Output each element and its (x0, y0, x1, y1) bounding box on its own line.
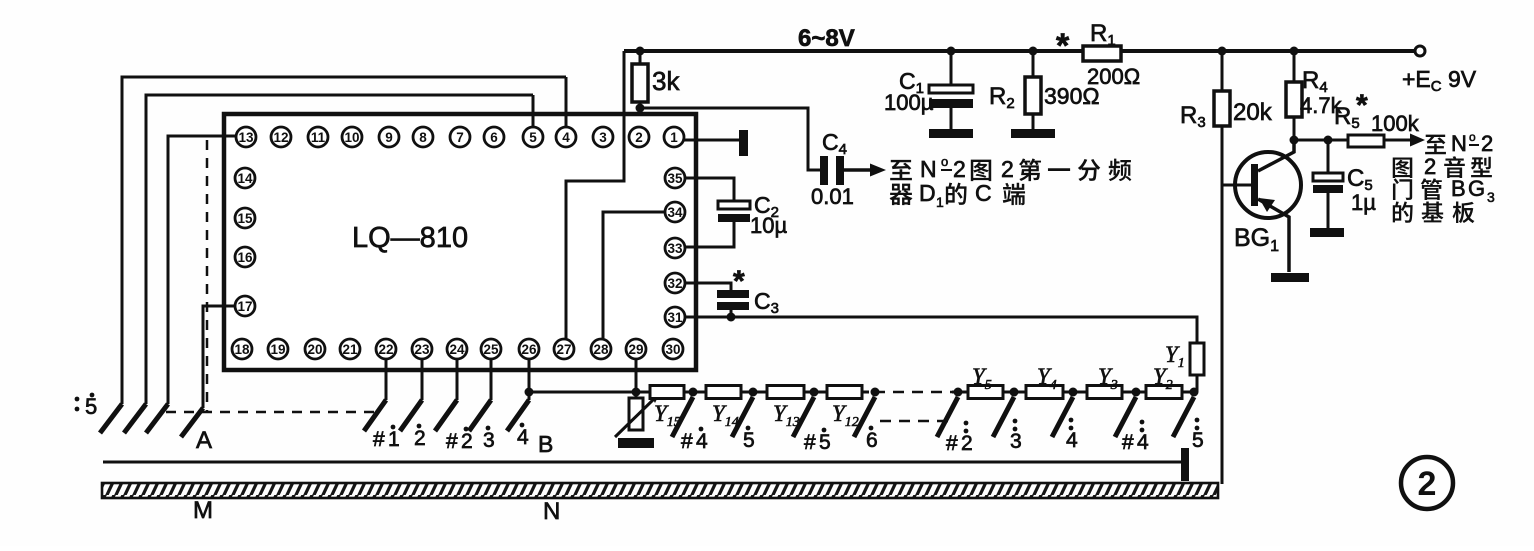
pin 32 (665, 273, 685, 293)
wire C5 bottom lead (1327, 193, 1330, 228)
node rail/3k (636, 47, 645, 56)
resistor R2 (1025, 77, 1041, 114)
wire pin35 to C2 (685, 178, 734, 201)
pin 25 (481, 339, 501, 359)
wire pin1 to tap (684, 139, 739, 142)
note #4 (681, 427, 708, 453)
pin 7 (450, 127, 470, 147)
pin 27 (554, 339, 574, 359)
svg-text:15: 15 (237, 211, 253, 226)
svg-text:#: # (373, 428, 385, 451)
pin 23 (412, 339, 432, 359)
terminal +Ec (1415, 46, 1425, 56)
node rail/R2 (1029, 47, 1038, 56)
node chain junction (1190, 388, 1199, 397)
capacitor C1 bottom plate (929, 99, 973, 108)
pin 6 (484, 127, 504, 147)
resistor R4 (1286, 82, 1302, 117)
pin 5 (523, 127, 543, 147)
svg-text:3: 3 (1010, 430, 1022, 453)
note #4 high (1122, 420, 1149, 454)
pin 1 (664, 127, 684, 147)
svg-text:2: 2 (1481, 131, 1493, 156)
svg-text:1µ: 1µ (1351, 190, 1376, 215)
wire collector lead (1258, 141, 1294, 171)
wire pin4 up (565, 77, 568, 127)
label ellipsis 5 high (75, 397, 80, 402)
svg-text:D: D (919, 180, 936, 206)
svg-text:*: * (733, 265, 745, 298)
pin 34 (665, 202, 685, 222)
wire pin23 down (421, 359, 424, 400)
resistor Y12 (827, 386, 862, 399)
wire pin32 to C3 (685, 283, 731, 290)
node pin29/chain (632, 388, 641, 397)
switch key chain (1173, 397, 1194, 437)
node rail/R4 (1290, 47, 1299, 56)
switch key pin24 (435, 400, 457, 431)
svg-text:5: 5 (743, 429, 755, 452)
svg-text:18: 18 (234, 342, 250, 357)
node chain junction (810, 388, 819, 397)
wire pin26 down (528, 359, 531, 400)
svg-text:100k: 100k (1371, 111, 1420, 136)
pin 13 (236, 127, 256, 147)
svg-text:2: 2 (1424, 154, 1436, 179)
resistor Y5 (968, 386, 1003, 399)
pin 11 (308, 127, 328, 147)
wire 3k top lead (639, 51, 642, 64)
wire key bus line (103, 461, 1181, 464)
svg-text:5: 5 (529, 130, 537, 145)
wire R2 top lead (1032, 51, 1035, 77)
pin 24 (447, 339, 467, 359)
wire 3k to pin2 (639, 102, 642, 127)
wire base lead (1222, 184, 1251, 187)
wire R2 bottom lead (1032, 114, 1035, 129)
svg-text:5: 5 (819, 431, 831, 454)
svg-text:2: 2 (635, 130, 643, 145)
node chain junction (1010, 388, 1019, 397)
svg-text:25: 25 (483, 342, 499, 357)
pin 3 (593, 127, 613, 147)
svg-text:1: 1 (388, 428, 400, 451)
pin 15 (235, 208, 255, 228)
svg-text:3: 3 (599, 130, 607, 145)
resistor R1 in series on rail (1083, 46, 1121, 61)
pin 4 (556, 127, 576, 147)
svg-text:14: 14 (237, 171, 253, 186)
wire collector node to R5 (1294, 139, 1412, 142)
dashed bus line vertical (206, 140, 209, 412)
switch key pin26 (507, 400, 529, 431)
pin 31 (665, 307, 685, 327)
pin 28 (591, 339, 611, 359)
wire C1 bottom lead (950, 108, 953, 129)
wire pin2 node to C4 (640, 108, 820, 170)
resistor Y2 (1146, 386, 1182, 399)
svg-text:28: 28 (593, 342, 609, 357)
svg-text:13: 13 (238, 130, 254, 145)
pin 9 (379, 127, 399, 147)
note 6 (866, 426, 878, 452)
svg-text:2: 2 (1001, 156, 1014, 182)
svg-text:19: 19 (270, 342, 285, 357)
wire R3 to keyboard busbar (1221, 126, 1224, 484)
BG1 emitter arrow (1259, 198, 1275, 212)
node collector/R4 (1290, 136, 1299, 145)
IC LQ-810 body (224, 114, 696, 370)
dashed chain continuation (874, 391, 952, 394)
pin 12 (271, 127, 291, 147)
BG1 base bar (1251, 164, 1258, 206)
note 4 (517, 423, 529, 449)
svg-text:32: 32 (667, 276, 682, 291)
capacitor C3 bottom plate (717, 302, 749, 310)
svg-text:10: 10 (344, 130, 359, 145)
note 3 high (1010, 419, 1022, 453)
svg-text:16: 16 (237, 250, 253, 265)
note text to N2 fig2 first divider D1 C terminal (890, 154, 1132, 210)
svg-text:20k: 20k (1233, 99, 1273, 126)
resistor Y13 (767, 386, 804, 399)
switch key pin23 (400, 400, 422, 431)
svg-text:#: # (681, 430, 693, 453)
node chain junction (689, 388, 698, 397)
svg-text:6~8V: 6~8V (798, 25, 855, 52)
capacitor C2 top plate (718, 201, 750, 209)
svg-text:M: M (193, 497, 213, 524)
node rail/R3 (1218, 47, 1227, 56)
node chain junction (871, 388, 880, 397)
svg-text:#: # (446, 430, 458, 453)
note #5 (804, 428, 831, 454)
wire outer loop pin4 (122, 77, 566, 404)
wire pin13 loop (168, 136, 236, 404)
svg-text:N: N (543, 498, 560, 525)
wire rail corner to pin 27 (566, 51, 624, 339)
wire pin5 up (532, 95, 535, 127)
resistor R3 (1214, 91, 1230, 126)
svg-text:*: * (1356, 89, 1368, 122)
pin 10 (342, 127, 362, 147)
svg-text:3: 3 (1487, 189, 1495, 205)
resistor Y1 (1190, 343, 1204, 375)
switch contact pin5 (124, 404, 146, 433)
pin 35 (665, 168, 685, 188)
resistor Y15 (650, 386, 684, 399)
node chain junction (1069, 388, 1078, 397)
resistor Y14 (706, 386, 741, 399)
svg-text:2: 2 (414, 427, 426, 450)
svg-text:20: 20 (307, 342, 322, 357)
capacitor C2 bottom plate (718, 214, 750, 222)
pin 16 (235, 247, 255, 267)
resistor 3k (632, 64, 648, 102)
capacitor C1 top plate (929, 85, 973, 93)
svg-text:8: 8 (419, 130, 427, 145)
node C5 (1324, 136, 1333, 145)
switch key chain (854, 397, 875, 437)
wire pin22 down (385, 359, 388, 400)
pin 8 (413, 127, 433, 147)
pin 14 (235, 168, 255, 188)
svg-text:C: C (975, 180, 992, 206)
svg-text:34: 34 (667, 205, 683, 220)
svg-text:1: 1 (670, 130, 678, 145)
svg-text:24: 24 (449, 342, 465, 357)
svg-text:35: 35 (667, 171, 683, 186)
wire C5 top lead (1327, 140, 1330, 173)
note 4 high (1066, 418, 1078, 452)
wire C1 top lead (950, 51, 953, 85)
wire R3 top lead (1221, 51, 1224, 91)
svg-text:6: 6 (490, 130, 498, 145)
svg-text:31: 31 (667, 310, 683, 325)
svg-text:4: 4 (1066, 429, 1078, 452)
wire note chain right (952, 391, 1194, 394)
svg-text:LQ—810: LQ—810 (352, 222, 468, 254)
switch contact pin17 (181, 408, 203, 437)
svg-text:N: N (920, 156, 937, 182)
note 5 (743, 426, 755, 452)
node C3/pin31 (727, 313, 736, 322)
wire pin31 to Y1 (685, 317, 1197, 343)
wire R4 bottom lead (1293, 117, 1296, 141)
pin 18 (232, 339, 252, 359)
wire note chain left (529, 391, 869, 394)
node pin26/chain (525, 388, 534, 397)
resistor Y3 (1087, 386, 1122, 399)
note text to N2 fig2 tone gate BG3 base (1393, 130, 1495, 223)
svg-text:6: 6 (866, 429, 878, 452)
note 5 high (1192, 418, 1204, 452)
switch key chain (1052, 397, 1073, 437)
svg-text:o: o (941, 154, 948, 169)
pin 26 (519, 339, 539, 359)
wire Y1 to chain (1196, 375, 1199, 392)
note 2 (414, 424, 426, 450)
switch key chain (1115, 397, 1136, 437)
node 3k/C4 branch (636, 104, 645, 113)
svg-text:1: 1 (936, 194, 944, 210)
svg-text:29: 29 (628, 342, 643, 357)
svg-text:G: G (1468, 176, 1485, 201)
node chain junction (954, 388, 963, 397)
adjust arrow (615, 396, 657, 437)
svg-text:27: 27 (556, 342, 571, 357)
svg-text:7: 7 (456, 130, 464, 145)
svg-text:4: 4 (696, 430, 708, 453)
wire C3 to pin31 line (730, 310, 733, 317)
svg-text:A: A (196, 427, 212, 454)
switch contact pin13 (146, 404, 168, 433)
arrow to N2 fig2 (870, 164, 886, 177)
switch contact outer (100, 404, 122, 433)
svg-text:17: 17 (237, 299, 252, 314)
node rail/C1 (947, 47, 956, 56)
wire +V supply rail 6~8V (624, 49, 1414, 53)
svg-text:200Ω: 200Ω (1087, 64, 1140, 89)
tap bar pin1 (739, 130, 748, 156)
switch key pin25 (469, 400, 491, 431)
ground pin29 (618, 438, 654, 448)
svg-text:3: 3 (483, 429, 495, 452)
wire pin24 down (456, 359, 459, 400)
switch key pin22 (364, 400, 386, 431)
svg-text:*: * (1056, 27, 1070, 65)
node chain junction (749, 388, 758, 397)
wire R4 top lead (1293, 51, 1296, 82)
note #2 high (946, 421, 973, 455)
svg-text:#: # (804, 431, 816, 454)
note #2 (446, 427, 473, 453)
pin 30 (663, 339, 683, 359)
figure number 2 circled (1401, 457, 1453, 509)
wire loop pin5 (146, 95, 533, 404)
wire pin29 down (635, 359, 638, 398)
switch key chain (993, 397, 1014, 437)
svg-text:21: 21 (342, 342, 358, 357)
switch key chain (672, 397, 693, 437)
svg-text:33: 33 (667, 241, 683, 256)
pin 33 (665, 238, 685, 258)
svg-text:3k: 3k (652, 66, 680, 96)
svg-text:11: 11 (311, 130, 326, 145)
svg-text:#: # (946, 432, 958, 455)
ground C1 (929, 129, 973, 138)
svg-text:26: 26 (521, 342, 537, 357)
svg-text:12: 12 (273, 130, 288, 145)
tap bar key bus (1181, 448, 1189, 481)
pin 29 (626, 339, 646, 359)
svg-text:2: 2 (1418, 465, 1437, 503)
svg-text:5: 5 (1192, 429, 1204, 452)
wire pin17 loop (203, 306, 235, 408)
ground R2 (1011, 129, 1055, 138)
svg-text:9: 9 (385, 130, 393, 145)
resistor R5 (1348, 135, 1384, 147)
capacitor C4 right plate (836, 156, 844, 185)
svg-text:5: 5 (85, 394, 97, 419)
ground BG1 emitter (1271, 273, 1309, 282)
switch key chain (732, 397, 753, 437)
capacitor C5 top plate (1313, 173, 1343, 181)
wire pin25 down (490, 359, 493, 400)
node chain junction (1132, 388, 1141, 397)
pin 19 (268, 339, 288, 359)
svg-text:10µ: 10µ (750, 213, 787, 238)
note 3 (483, 426, 495, 452)
svg-text:N: N (1451, 131, 1467, 156)
transistor BG1 (1235, 152, 1301, 218)
wire emitter lead (1258, 199, 1289, 272)
switch key chain (793, 397, 814, 437)
dashed bus line horizontal A (166, 411, 378, 414)
wire pin34 to pin28 (603, 212, 665, 339)
capacitor C5 bottom plate (1313, 185, 1343, 193)
switch key chain (937, 397, 958, 437)
svg-text:4: 4 (517, 426, 529, 449)
pin 20 (305, 339, 325, 359)
dashed switch row continuation (880, 420, 952, 423)
wire C4 output (844, 168, 872, 172)
svg-text:4: 4 (1137, 431, 1149, 454)
svg-text:23: 23 (414, 342, 430, 357)
svg-text:2: 2 (953, 156, 966, 182)
svg-text:0.01: 0.01 (811, 184, 854, 209)
resistor adjustable pin29 (629, 398, 643, 430)
svg-text:30: 30 (665, 342, 680, 357)
pin 17 (235, 296, 255, 316)
pin 22 (376, 339, 396, 359)
svg-text:2: 2 (461, 430, 473, 453)
svg-text:100µ: 100µ (884, 90, 934, 115)
svg-text:o: o (1469, 130, 1476, 144)
svg-text:22: 22 (378, 342, 393, 357)
svg-text:#: # (1122, 431, 1134, 454)
svg-text:2: 2 (961, 432, 973, 455)
capacitor C4 left plate (820, 156, 828, 185)
ground C5 (1310, 228, 1344, 237)
pin 21 (340, 339, 360, 359)
pin 2 (629, 127, 649, 147)
resistor Y4 (1026, 386, 1063, 399)
wire C2 to pin33 (685, 222, 734, 247)
arrow to BG3 (1410, 134, 1425, 147)
adjust arrowhead (650, 393, 660, 403)
svg-text:B: B (538, 431, 553, 457)
keyboard busbar M-N hatched (102, 483, 1218, 498)
capacitor C3 top plate (717, 290, 749, 298)
note #1 (373, 425, 400, 451)
svg-text:4: 4 (562, 130, 570, 145)
svg-text:B: B (1451, 176, 1466, 201)
